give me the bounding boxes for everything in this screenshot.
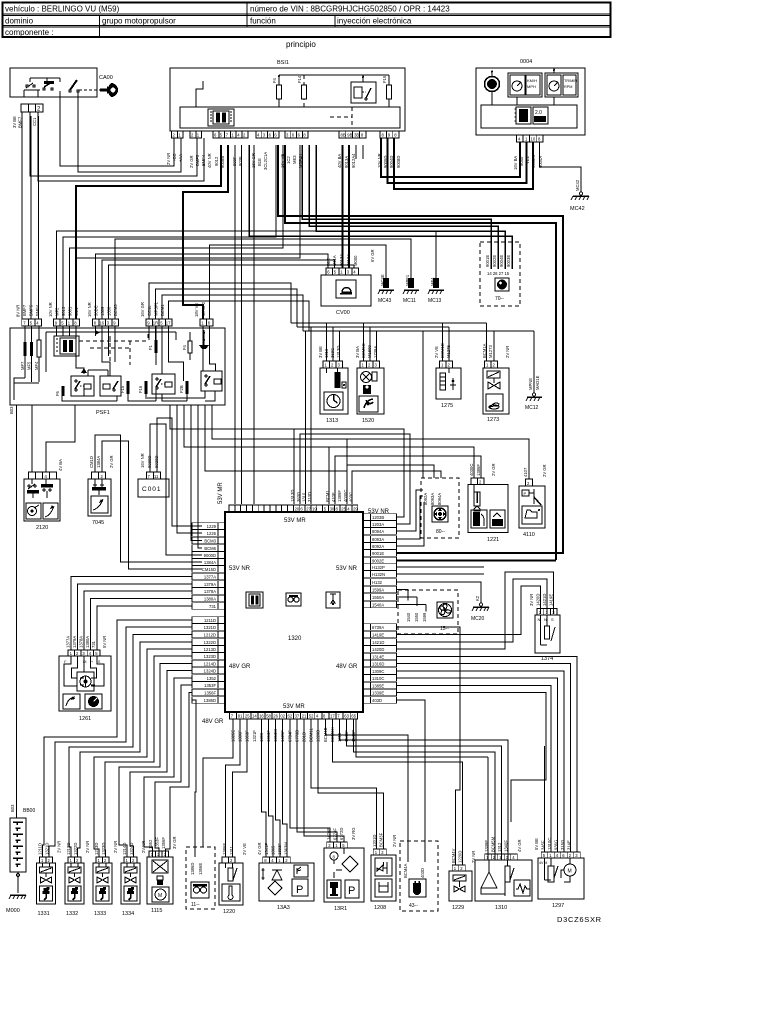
svg-text:345F: 345F	[541, 840, 546, 850]
svg-text:9001E: 9001E	[372, 551, 384, 556]
svg-text:3: 3	[338, 363, 341, 368]
svg-text:1379A: 1379A	[204, 582, 216, 587]
svg-text:2V GR: 2V GR	[491, 463, 496, 476]
svg-text:8: 8	[208, 321, 211, 326]
svg-text:8: 8	[303, 133, 306, 138]
svg-text:7: 7	[23, 321, 26, 326]
svg-text:4: 4	[512, 855, 515, 860]
svg-text:53V MR: 53V MR	[283, 704, 305, 710]
wire 1221 pin2 loop	[335, 456, 481, 504]
wire 2120 pin4 up	[46, 405, 75, 472]
svg-text:BCM1A: BCM1A	[482, 343, 487, 358]
svg-text:2V NR: 2V NR	[166, 153, 171, 165]
svg-text:6: 6	[327, 270, 330, 275]
wire ECU to 1261 pin1	[71, 577, 192, 651]
0004 pin row	[513, 135, 543, 170]
svg-text:9: 9	[147, 321, 150, 326]
wire BSI 9012 to PSF1 thick	[183, 145, 228, 319]
wire fan to PSF1 cell5b	[70, 145, 284, 319]
wire MC11 feed	[115, 239, 411, 319]
wire ignition to BSI +CC	[60, 97, 174, 166]
fuse F6	[62, 386, 65, 396]
svg-text:MF2: MF2	[55, 307, 60, 316]
wire ECU bottom to 43-- a	[325, 719, 408, 862]
wire CC1 pin2 to PSF1	[30, 116, 32, 319]
wire BSI 16V to right loop B	[285, 145, 556, 560]
svg-text:16: 16	[259, 714, 264, 719]
svg-text:principio: principio	[286, 40, 316, 49]
wire 7045 pin2 to ECU 1226	[102, 441, 202, 569]
svg-text:8: 8	[382, 133, 385, 138]
wire ECU bottom to 13R1 p3	[304, 719, 344, 842]
wire ECU left bundle 8	[130, 671, 192, 858]
wire G4 stub to 1313 bus	[149, 283, 291, 323]
svg-text:MC20: MC20	[471, 616, 485, 622]
svg-text:52: 52	[309, 714, 314, 719]
wire 8092A to 80--	[397, 502, 424, 546]
svg-text:1380A: 1380A	[204, 596, 216, 601]
svg-text:8093A: 8093A	[372, 537, 384, 542]
svg-text:48V GR: 48V GR	[336, 664, 358, 670]
PSF1 internal wires	[56, 326, 58, 336]
wire BSI to 70-- pin4	[249, 145, 512, 269]
svg-text:4V GR: 4V GR	[257, 842, 262, 855]
svg-text:16V GR: 16V GR	[140, 302, 145, 317]
wire BSI 40V BA to CV00 thick1	[341, 145, 343, 268]
svg-text:4: 4	[36, 321, 39, 326]
ECU injector icon	[326, 592, 340, 608]
fuse F1	[155, 326, 157, 365]
wire BSI to ECU pass-through	[234, 145, 236, 504]
svg-text:1365: 1365	[271, 845, 276, 855]
clock icon	[485, 77, 500, 92]
svg-text:7: 7	[226, 133, 229, 138]
svg-text:2V GR: 2V GR	[109, 455, 114, 468]
wire C001 pin11 to ECU BCM6	[157, 418, 202, 526]
injector 1334	[121, 841, 146, 917]
svg-text:1384A: 1384A	[204, 560, 216, 565]
svg-text:29: 29	[353, 507, 358, 512]
svg-text:13A3: 13A3	[277, 905, 290, 911]
glow plug unit 1313	[318, 346, 348, 424]
relay K2	[100, 376, 121, 396]
svg-text:9013: 9013	[61, 306, 66, 316]
svg-text:8093A: 8093A	[430, 493, 435, 505]
wire ECU left bundle 7	[119, 664, 192, 858]
svg-text:1: 1	[486, 363, 489, 368]
svg-text:1310: 1310	[324, 348, 329, 358]
svg-text:MC42: MC42	[570, 206, 585, 212]
svg-text:2V NR: 2V NR	[85, 841, 90, 853]
svg-text:1: 1	[454, 866, 457, 871]
svg-text:MAD1E: MAD1E	[535, 375, 540, 390]
key switch CA00	[79, 75, 118, 97]
wire ECU left bundle 11	[166, 693, 193, 858]
wire BSI 16V to right loop A	[278, 145, 563, 554]
svg-text:02: 02	[280, 714, 285, 719]
svg-text:1353F: 1353F	[155, 837, 160, 849]
svg-text:53V MR: 53V MR	[218, 482, 224, 504]
wire fan G2b	[70, 145, 284, 319]
svg-text:1208: 1208	[374, 905, 386, 911]
svg-text:MPSF2: MPSF2	[201, 301, 206, 316]
svg-text:BCM4V: BCM4V	[451, 848, 456, 863]
ECU top pin row	[229, 505, 358, 512]
svg-text:MC11: MC11	[403, 298, 416, 304]
svg-text:1297: 1297	[552, 903, 564, 909]
svg-text:MC12: MC12	[525, 405, 539, 411]
svg-text:1380A: 1380A	[85, 636, 90, 648]
svg-text:1214D: 1214D	[122, 843, 127, 855]
svg-text:MPSF1: MPSF1	[154, 301, 159, 316]
svg-text:8: 8	[336, 507, 339, 512]
svg-text:4: 4	[556, 853, 559, 858]
resistor unit 1374	[529, 594, 560, 662]
svg-text:1386F: 1386F	[476, 464, 481, 476]
sensor 2120	[24, 459, 63, 531]
svg-text:80--: 80--	[436, 529, 445, 535]
svg-text:9020D: 9020D	[154, 456, 159, 468]
svg-text:1203A: 1203A	[372, 522, 384, 527]
svg-text:27: 27	[306, 507, 311, 512]
svg-text:2V NR: 2V NR	[505, 346, 510, 358]
svg-text:F4: F4	[272, 77, 277, 83]
instrument cluster 0004	[476, 59, 585, 135]
preheater unit 1310	[475, 836, 532, 911]
wire ECU bottom to 13R1 p1	[290, 719, 330, 842]
svg-text:3: 3	[82, 651, 85, 656]
svg-text:5: 5	[324, 507, 327, 512]
ground MC42	[570, 179, 589, 212]
svg-text:8B: 8B	[341, 133, 346, 138]
svg-text:1599: 1599	[422, 612, 427, 622]
svg-text:1353F: 1353F	[204, 683, 216, 688]
svg-text:1420D: 1420D	[536, 594, 541, 606]
svg-text:C001: C001	[142, 486, 162, 493]
svg-text:314E: 314E	[567, 840, 572, 850]
svg-text:1332: 1332	[66, 911, 78, 917]
svg-text:F1: F1	[148, 344, 153, 350]
svg-text:BB00: BB00	[23, 808, 35, 814]
wire 1421D switchback	[397, 579, 547, 642]
svg-text:1275: 1275	[441, 403, 453, 409]
connector 11-- dashed	[186, 847, 215, 909]
wire ECU bottom to 1220 b	[233, 719, 248, 857]
svg-text:1384A: 1384A	[96, 456, 101, 468]
svg-text:M11A: M11A	[332, 255, 337, 266]
ECU driver icon	[286, 593, 301, 606]
svg-text:1: 1	[231, 133, 234, 138]
svg-text:9003E: 9003E	[506, 255, 511, 267]
svg-text:1201D: 1201D	[372, 835, 377, 847]
wire ECU bottom to 11-- b	[203, 719, 233, 847]
svg-text:2: 2	[101, 474, 104, 479]
EGR valve 1297	[534, 838, 584, 909]
svg-text:1212D: 1212D	[204, 632, 216, 637]
svg-text:1: 1	[486, 855, 489, 860]
svg-text:8: 8	[361, 133, 364, 138]
svg-text:1: 1	[201, 321, 204, 326]
relay K1	[71, 376, 94, 396]
svg-text:1310: 1310	[495, 905, 507, 911]
injector 1332	[65, 841, 90, 917]
connector 43-- dashed	[400, 841, 438, 911]
relay in BSI1	[351, 82, 376, 103]
svg-text:1352: 1352	[148, 839, 153, 849]
svg-text:30DC: 30DC	[94, 305, 99, 316]
svg-text:MF7: MF7	[20, 361, 25, 370]
svg-text:1393F: 1393F	[277, 843, 282, 855]
svg-text:48V GR: 48V GR	[229, 664, 251, 670]
wire PSF1 out s5	[198, 405, 202, 548]
svg-text:1: 1	[441, 363, 444, 368]
wire PSF1 out s7	[212, 405, 347, 439]
ground MC11	[403, 274, 419, 304]
wire 1203B loop	[294, 429, 404, 517]
svg-text:1426F: 1426F	[326, 828, 331, 840]
svg-text:18V VE: 18V VE	[194, 303, 199, 317]
svg-text:5: 5	[95, 651, 98, 656]
wire MC43 feed	[210, 245, 387, 319]
svg-text:2V GR: 2V GR	[189, 155, 194, 168]
svg-text:2: 2	[191, 133, 194, 138]
wire H132P	[397, 566, 484, 568]
svg-text:BMF4: BMF4	[35, 304, 40, 316]
svg-text:8: 8	[74, 321, 77, 326]
wires BSI1 to cluster 0004	[381, 138, 520, 177]
svg-text:1: 1	[546, 610, 549, 615]
svg-text:1385E: 1385E	[372, 683, 384, 688]
svg-text:t°: t°	[64, 660, 67, 664]
header table	[3, 3, 611, 38]
wire 1540A	[397, 605, 426, 612]
svg-text:BCM3: BCM3	[204, 538, 216, 543]
svg-text:5: 5	[543, 853, 546, 858]
svg-text:M1500: M1500	[367, 345, 372, 358]
wire 1520 to ECU a	[305, 331, 307, 504]
svg-text:2V NR: 2V NR	[57, 841, 62, 853]
svg-text:403D: 403D	[372, 698, 382, 703]
control unit 13A3	[257, 842, 314, 911]
wire CC1 pin1 to PSF1	[21, 112, 23, 319]
svg-text:3V NR: 3V NR	[529, 594, 534, 606]
svg-text:936G: 936G	[554, 840, 559, 850]
wire G4 stub to 1520 bus	[156, 289, 298, 327]
svg-text:3: 3	[107, 321, 110, 326]
svg-text:CV00: CV00	[336, 310, 350, 316]
svg-text:M000: M000	[353, 255, 358, 266]
svg-text:1313D: 1313D	[336, 346, 341, 358]
svg-text:M: M	[158, 893, 162, 899]
svg-text:B1E: B1E	[326, 258, 331, 266]
wire 1297 extra	[543, 746, 545, 852]
svg-text:KM/H: KM/H	[527, 78, 537, 83]
wire ECU bottom to 13A3 p1	[261, 719, 266, 857]
svg-text:6: 6	[214, 133, 217, 138]
solenoid 1273	[482, 343, 510, 423]
wire 1310 d	[487, 757, 489, 860]
svg-text:6: 6	[298, 133, 301, 138]
svg-text:3: 3	[164, 852, 167, 857]
svg-text:3V BE: 3V BE	[318, 346, 323, 358]
wire fan to PSF1 G3 stub2	[102, 260, 335, 319]
svg-text:B03: B03	[9, 406, 14, 414]
svg-text:P: P	[296, 884, 303, 896]
svg-text:2V GR: 2V GR	[542, 464, 547, 477]
svg-text:48V GR: 48V GR	[202, 719, 224, 725]
svg-text:1309C: 1309C	[372, 669, 384, 674]
wire ECU to 1261 pin3	[84, 591, 192, 650]
svg-text:1: 1	[362, 363, 365, 368]
svg-text:11--: 11--	[191, 902, 200, 908]
svg-text:1520: 1520	[362, 418, 374, 424]
svg-text:1: 1	[197, 133, 200, 138]
svg-text:2: 2	[493, 363, 496, 368]
svg-text:9004E: 9004E	[499, 255, 504, 267]
svg-text:4: 4	[353, 270, 356, 275]
svg-text:BCM4A: BCM4A	[403, 863, 408, 878]
fuse MF5	[31, 326, 33, 378]
svg-text:65: 65	[351, 714, 356, 719]
svg-text:2V VE: 2V VE	[242, 843, 247, 855]
wire 80-- top b	[352, 471, 441, 504]
wire 1221 pin1 loop	[329, 447, 474, 504]
svg-text:1377A: 1377A	[204, 574, 216, 579]
svg-text:1378A: 1378A	[78, 636, 83, 648]
svg-text:4: 4	[45, 474, 48, 479]
svg-text:1324D: 1324D	[129, 843, 134, 855]
wire ECU bottom to 1220 a	[226, 719, 241, 857]
svg-text:1: 1	[549, 853, 552, 858]
wire 1550A	[397, 597, 417, 606]
wire BSI to ECU pass-through 3	[253, 145, 255, 504]
svg-text:MPH: MPH	[527, 84, 536, 89]
svg-text:1550A: 1550A	[372, 595, 384, 600]
wire BSI to 70-- pin2	[309, 145, 498, 269]
svg-text:H132N: H132N	[372, 572, 385, 577]
svg-text:1211D: 1211D	[204, 618, 216, 623]
wire ECU bottom to 1208 p2	[318, 719, 383, 849]
wire fan to PSF1 G3 stub1	[96, 254, 329, 319]
wire fan to PSF1 cell1b	[76, 145, 300, 319]
svg-text:16V BA: 16V BA	[513, 156, 518, 170]
svg-text:3V GR: 3V GR	[172, 836, 177, 849]
svg-text:3: 3	[552, 610, 555, 615]
svg-text:6: 6	[292, 133, 295, 138]
svg-text:+: +	[91, 660, 93, 664]
injection pump unit 1261	[59, 636, 111, 722]
wire bus 2V row1	[291, 323, 487, 361]
svg-text:1350: 1350	[107, 306, 112, 316]
svg-text:9012A: 9012A	[346, 254, 351, 266]
wire ECU left bundle 5	[94, 649, 192, 857]
svg-text:2: 2	[173, 133, 176, 138]
svg-text:MC43: MC43	[378, 298, 392, 304]
compressor clutch 1520	[355, 343, 384, 424]
svg-text:37: 37	[295, 714, 300, 719]
svg-text:13R1: 13R1	[334, 906, 347, 912]
svg-text:4V GR: 4V GR	[517, 839, 522, 852]
svg-text:2: 2	[539, 610, 542, 615]
wire BSI 40V BA to CV00 thick2	[348, 145, 350, 268]
svg-text:21: 21	[302, 714, 307, 719]
svg-text:5: 5	[220, 133, 223, 138]
svg-text:6: 6	[562, 853, 565, 858]
svg-text:16: 16	[99, 321, 104, 326]
svg-text:K2: K2	[475, 595, 480, 601]
svg-text:F15: F15	[382, 75, 387, 83]
svg-text:2: 2	[230, 858, 233, 863]
svg-text:1: 1	[340, 270, 343, 275]
svg-text:1273: 1273	[487, 417, 499, 423]
svg-text:10V NR: 10V NR	[48, 302, 53, 317]
PSF1 connector row	[16, 301, 213, 326]
fuse MF7	[24, 326, 26, 378]
svg-text:4030C: 4030C	[343, 490, 348, 502]
svg-text:1419E: 1419E	[372, 632, 384, 637]
wire BSI to 70-- pin1	[302, 145, 491, 269]
svg-text:315G: 315G	[560, 840, 565, 850]
fan unit 15-- dashed	[398, 590, 458, 634]
injector 1331	[37, 841, 62, 917]
battery rail from PSF1	[16, 405, 18, 818]
svg-text:3CL2C1A: 3CL2C1A	[263, 152, 268, 170]
svg-text:F6: F6	[55, 390, 60, 396]
svg-text:CM15D: CM15D	[202, 567, 216, 572]
svg-text:9: 9	[388, 133, 391, 138]
fuel sensor 1221	[468, 463, 508, 543]
svg-text:1386D: 1386D	[190, 863, 195, 875]
wire 8093A to 80--	[397, 496, 423, 539]
wire ECU bottom to 13A3 p3	[276, 719, 280, 857]
svg-text:P: P	[348, 885, 355, 897]
svg-text:1: 1	[178, 133, 181, 138]
wire ECU left bundle 9	[144, 678, 192, 857]
svg-text:53V NR: 53V NR	[336, 566, 358, 572]
svg-text:B1E: B1E	[257, 158, 262, 166]
wire CC1 pin3 to PSF1	[38, 116, 40, 319]
svg-text:CC1L: CC1L	[147, 305, 152, 316]
wire 1599A	[397, 590, 408, 601]
wire ECU bottom to 1208 p1	[311, 719, 376, 849]
svg-text:9001: 9001	[68, 306, 73, 316]
svg-text:1229: 1229	[207, 524, 217, 529]
svg-text:53V NR: 53V NR	[229, 566, 251, 572]
svg-text:3: 3	[347, 270, 350, 275]
svg-text:F4: F4	[182, 344, 187, 350]
svg-text:1379A: 1379A	[72, 636, 77, 648]
svg-text:2120: 2120	[36, 525, 48, 531]
svg-text:1211D: 1211D	[38, 843, 43, 855]
relay K4	[201, 371, 222, 391]
svg-text:4: 4	[347, 507, 350, 512]
wire ECU bottom to 1310 b	[347, 719, 502, 860]
relay K3	[152, 374, 175, 394]
svg-text:43--: 43--	[409, 903, 418, 909]
svg-text:1261: 1261	[79, 716, 91, 722]
svg-text:1420D: 1420D	[372, 647, 384, 652]
svg-text:2.0: 2.0	[535, 110, 542, 116]
wire PSF1 out s2	[177, 405, 202, 533]
svg-text:40V BA: 40V BA	[337, 154, 342, 168]
wire ECU to 1261 pin4	[90, 599, 192, 651]
wire fan to PSF1 cell9	[63, 145, 276, 319]
wire 9001E leg	[397, 552, 563, 554]
wire ECU bottom to 1229 b	[332, 719, 462, 865]
wire 6739A to 1229	[397, 627, 460, 865]
svg-text:14: 14	[252, 714, 257, 719]
svg-text:1322D: 1322D	[73, 843, 78, 855]
